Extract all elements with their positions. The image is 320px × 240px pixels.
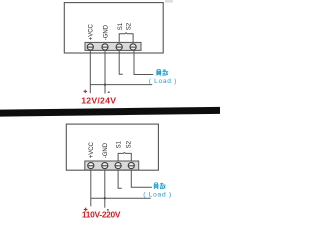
wire -GND down to supply - (top) — [104, 50, 106, 93]
wire -GND down to supply - (bottom) — [104, 170, 106, 208]
wire load return bus (top) — [90, 84, 152, 86]
sensor jumper S1-S2 (top) — [119, 33, 133, 43]
svg-text:S1: S1 — [116, 140, 122, 148]
wire S2 to load (bottom) — [131, 170, 152, 187]
label - supply (top) — [108, 92, 110, 93]
svg-text:-GND: -GND — [104, 24, 110, 40]
label + supply (bottom) — [84, 208, 88, 212]
svg-text:+VCC: +VCC — [89, 23, 95, 40]
sensor jumper S1-S2 (bottom) — [118, 153, 131, 162]
screw terminal TB1-3 (S1) — [116, 44, 122, 50]
screw terminal TB1-2 (-GND) — [102, 44, 108, 50]
screw terminal TB2-2 (-GND) — [102, 163, 108, 169]
terminal block TB1 (top) — [85, 42, 141, 50]
photo edge black band — [0, 107, 220, 117]
svg-text:S2: S2 — [126, 140, 132, 148]
controller box U1 (top diagram) — [64, 3, 163, 53]
screw terminal TB1-1 (+VCC) — [87, 44, 93, 50]
watermark fragment top-right — [165, 0, 173, 3]
wire +VCC down to supply + (bottom) — [90, 170, 92, 206]
svg-text:-GND: -GND — [103, 142, 109, 158]
svg-text:( Load ): ( Load ) — [149, 78, 177, 85]
wire load return bus (bottom) — [91, 197, 151, 199]
svg-text:S2: S2 — [127, 22, 133, 30]
label - supply (bottom) — [107, 209, 109, 210]
controller box U2 (bottom diagram) — [66, 124, 158, 170]
wire S2 to load (top) — [134, 50, 153, 74]
load label CJK (top) — [157, 69, 169, 75]
wire +VCC down to supply + (top) — [89, 50, 91, 93]
svg-text:( Load ): ( Load ) — [143, 191, 172, 198]
svg-text:110V-220V: 110V-220V — [82, 210, 121, 220]
terminal block TB2 (bottom) — [85, 161, 139, 170]
junction bus x -GND wire (top) — [104, 84, 106, 86]
screw terminal TB2-4 (S2) — [128, 163, 134, 169]
svg-text:S1: S1 — [118, 22, 124, 30]
screw terminal TB1-4 (S2) — [130, 44, 136, 50]
load label CJK (bottom) — [154, 183, 166, 189]
svg-text:+VCC: +VCC — [89, 141, 95, 158]
junction bus x -GND wire (bottom) — [104, 197, 106, 199]
label + supply (top) — [84, 90, 88, 94]
svg-text:12V/24V: 12V/24V — [81, 95, 116, 105]
screw terminal TB2-1 (+VCC) — [88, 163, 94, 169]
wire S1 stub (bottom) — [118, 170, 122, 188]
screw terminal TB2-3 (S1) — [115, 163, 121, 169]
wire S1 stub (top) — [119, 50, 123, 74]
